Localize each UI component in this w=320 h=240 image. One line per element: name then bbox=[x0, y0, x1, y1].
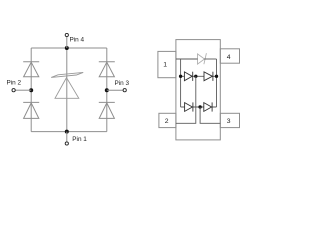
svg-text:Pin 3: Pin 3 bbox=[115, 80, 130, 87]
node junction dot bottom (Pin1 net) bbox=[65, 130, 69, 134]
diode D2 bottom-left bbox=[23, 102, 39, 118]
diode D8 package bottom-right bbox=[204, 102, 212, 111]
wire pin3 connection bbox=[200, 107, 220, 123]
svg-text:Pin 2: Pin 2 bbox=[7, 80, 22, 87]
wire zener cathode to right bus bbox=[204, 58, 216, 60]
svg-text:Pin 4: Pin 4 bbox=[70, 37, 85, 44]
wire Pin2 stub bbox=[16, 89, 32, 91]
diode D1 top-left bbox=[23, 62, 39, 77]
node dot top row right bbox=[215, 75, 218, 78]
wire Pin3 stub bbox=[107, 89, 123, 91]
diode D6 package top-right bbox=[204, 72, 213, 81]
wire right branch vertical bbox=[106, 48, 108, 132]
node dot top row left bbox=[179, 75, 182, 78]
wire zener anode (pin1 pad to zener) bbox=[176, 58, 198, 60]
node dot bottom row mid bbox=[198, 105, 201, 108]
svg-text:2: 2 bbox=[165, 118, 169, 125]
diode D3 top-right bbox=[99, 62, 115, 77]
wire bottom rail Pin1 net bbox=[31, 131, 107, 133]
wire center branch vertical bbox=[66, 48, 68, 132]
diode D5 package top-left bbox=[184, 72, 192, 81]
terminal circle Pin3 bbox=[123, 89, 126, 92]
svg-text:1: 1 bbox=[163, 61, 167, 68]
zener Z1 center TVS bbox=[51, 72, 83, 98]
diode D4 bottom-right bbox=[99, 102, 115, 118]
pad pin2 bbox=[159, 113, 176, 127]
package body outline bbox=[176, 40, 220, 140]
wire top rail Pin4 net bbox=[31, 47, 107, 49]
wire left branch vertical bbox=[30, 48, 32, 132]
pad pin3 bbox=[220, 113, 239, 127]
wire Pin1 stub bbox=[66, 132, 68, 142]
diode D7 package bottom-left bbox=[185, 102, 193, 111]
pad pin1 bbox=[158, 51, 176, 77]
wire Pin4 stub bbox=[66, 37, 68, 48]
svg-text:Pin 1: Pin 1 bbox=[72, 136, 87, 143]
terminal circle Pin4 bbox=[65, 33, 68, 36]
wire left bus (Pin1 net) bbox=[180, 59, 182, 107]
wire pin2 connection bbox=[176, 76, 196, 123]
wire right bus (Pin4 net) bbox=[216, 59, 218, 107]
node junction dot Pin2 bbox=[29, 88, 33, 92]
pad pin4 bbox=[220, 49, 239, 63]
node junction dot top (Pin4 net) bbox=[65, 46, 69, 50]
wire top diode row bbox=[181, 75, 217, 77]
wire bottom diode row bbox=[181, 106, 217, 108]
svg-text:4: 4 bbox=[227, 54, 231, 61]
terminal circle Pin2 bbox=[12, 89, 15, 92]
node junction dot Pin3 bbox=[105, 88, 109, 92]
zener Z1 inside package (grey) bbox=[198, 53, 207, 64]
node dot top row mid bbox=[194, 75, 197, 78]
terminal circle Pin1 bbox=[65, 142, 68, 145]
svg-text:3: 3 bbox=[227, 118, 231, 125]
